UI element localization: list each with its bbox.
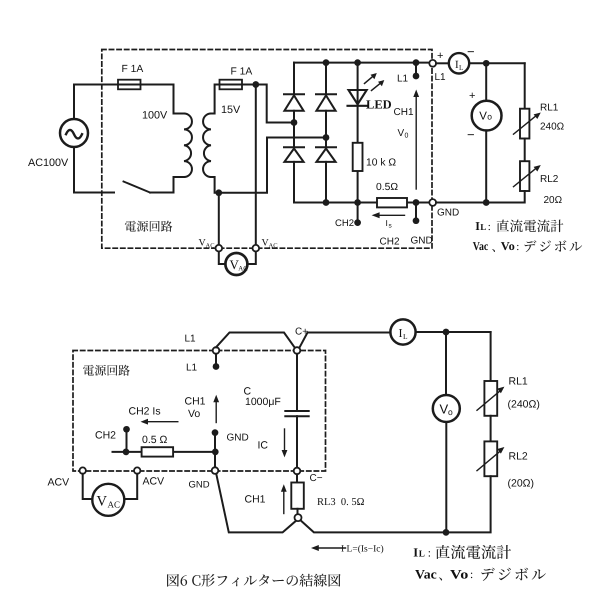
wire: Vo branch lower (bottom) (445, 423, 447, 532)
ammeter IL (bottom circuit) (390, 319, 415, 344)
svg-text:CH2: CH2 (335, 218, 354, 229)
wire: right edge lower to GND terminal (436, 191, 525, 203)
wire: capacitor branch lower (296, 416, 298, 468)
wire: diode column 1 middle segment (293, 111, 295, 148)
svg-text:CH2: CH2 (95, 430, 116, 442)
svg-text:CH2 Is: CH2 Is (129, 406, 161, 418)
resistor R2 0.5Ω (sense) (377, 198, 407, 207)
svg-text:I: I (399, 326, 403, 340)
resistor R1 10kΩ (353, 143, 363, 171)
svg-text:100V: 100V (142, 110, 168, 122)
wire: L1 probe stub (bottom) (215, 354, 217, 364)
transformer T1 primary winding (184, 114, 192, 178)
svg-text:I L=(Is−Ic): I L=(Is−Ic) (341, 545, 384, 555)
node: Vo branch top junction (bottom) (443, 329, 450, 336)
LED D5 (348, 90, 368, 106)
measurement arrow IC (capacitor current) (282, 429, 288, 457)
svg-text:Vo: Vo (501, 239, 515, 253)
svg-text:CH1: CH1 (185, 396, 206, 408)
terminal ACV left (80, 467, 86, 473)
wire: between RL1 and RL2 (524, 139, 526, 162)
label VAC (left terminal) (199, 238, 215, 250)
wire: secondary bottom junction to bridge AC input 2 (219, 138, 326, 193)
node: GND probe point (413, 217, 420, 224)
label 電源回路 (top) (125, 221, 172, 232)
svg-text:RL1: RL1 (540, 103, 559, 114)
svg-text:LED: LED (366, 98, 392, 112)
wire: C+ terminal to ammeter IL (bottom) (300, 333, 391, 348)
voltmeter Vo (bottom circuit) (433, 395, 460, 422)
rheostat RL1 (top circuit) (514, 109, 541, 139)
node: diode column 2 top rail junction (323, 59, 330, 66)
svg-text:L1: L1 (185, 334, 197, 345)
node: voltmeter Vo bottom junction (483, 199, 490, 206)
wire: VAC right terminal to meter (247, 252, 256, 265)
node: CH2 junction on sense wire (123, 449, 130, 456)
wire: VAC left terminal to meter (219, 252, 226, 265)
resistor RL3 0.5Ω (291, 483, 304, 509)
svg-text:I: I (413, 546, 418, 560)
switch S1 blade (124, 182, 151, 193)
svg-text:0.5Ω: 0.5Ω (376, 182, 398, 193)
wire: diode column 1 upper segment (293, 63, 295, 95)
current arrow Is (372, 212, 405, 218)
svg-text:GND: GND (227, 433, 249, 444)
wire: CH2 probe stub (357, 203, 359, 221)
terminal C+ (294, 347, 301, 354)
label Is (386, 218, 393, 230)
wire: L1 terminal to ammeter IL (436, 62, 448, 64)
svg-text:RL2: RL2 (540, 174, 559, 185)
voltmeter Vo (top circuit) (472, 101, 502, 131)
wire: primary bottom to switch S1 (150, 177, 184, 193)
terminal ACV right (134, 467, 140, 473)
ac source G1 (60, 119, 88, 147)
svg-text:AC: AC (206, 243, 215, 250)
svg-text:IC: IC (258, 440, 269, 452)
voltmeter VAC (225, 253, 248, 275)
svg-text:L: L (459, 64, 463, 72)
wire: bridge bottom rail (294, 202, 429, 204)
legend (top): Vac, Vo : digital voltmeter (473, 239, 520, 253)
wire: diode column 2 middle segment (325, 111, 327, 148)
measurement arrow CH1/Vo (bottom box) (213, 395, 219, 423)
svg-text:AC: AC (108, 500, 121, 510)
svg-text:o: o (448, 407, 453, 417)
wire: switch S1 contact to AC source bottom (74, 147, 114, 193)
node: GND probe junction on bottom rail (413, 199, 420, 206)
node: L1 probe point (bottom) (213, 363, 220, 370)
legend (bottom): Vac, Vo : digital voltmeter (415, 566, 473, 581)
wire: C- terminal to RL3 (296, 474, 298, 482)
wire: Vo branch lower (485, 130, 487, 202)
rheostat RL2 (bottom circuit) (477, 441, 504, 476)
wire: ACV left terminal to VAC meter (83, 474, 93, 499)
wire: ammeter IL to load corner (bottom) (416, 331, 491, 333)
svg-text:RL3 0. 5Ω: RL3 0. 5Ω (317, 497, 365, 508)
svg-text:0.5 Ω: 0.5 Ω (142, 434, 168, 446)
measurement arrow CH1 (across RL3) (281, 484, 287, 513)
wire: VAC meter right lead (255, 85, 257, 246)
svg-text:GND: GND (437, 208, 459, 219)
svg-text:L: L (403, 332, 408, 341)
svg-text::: : (428, 547, 431, 559)
wire: RL3 to bottom terminal (297, 509, 299, 514)
svg-text:Vo: Vo (188, 408, 200, 420)
wire: GND probe stub (415, 203, 417, 219)
LED light arrow 1 (365, 73, 377, 84)
svg-text:Vo: Vo (450, 566, 468, 581)
wire: rail to GND terminal diagonal (216, 475, 295, 533)
label V0 (top circuit) (398, 128, 409, 140)
svg-text:F 1A: F 1A (122, 64, 144, 75)
node: fuse F2 output junction (252, 81, 259, 88)
node: sense wire / GND junction (212, 449, 219, 456)
wire: AC source top to transformer primary (through fuse F1) (74, 85, 184, 120)
wire: right edge lower and bottom rail (bottom circuit) (302, 476, 491, 532)
dashed enclosure: power supply unit (top) (102, 50, 432, 249)
wire: bridge top rail (294, 62, 429, 64)
svg-text:C+: C+ (295, 327, 308, 338)
wire: sense wire through 0.5Ω (113, 451, 216, 453)
svg-text:ACV: ACV (48, 477, 70, 489)
wire: between RL1 and RL2 (bottom) (490, 416, 492, 442)
svg-text:V: V (398, 128, 405, 139)
fuse F1 (118, 80, 141, 90)
terminal GND (top circuit output) (429, 199, 436, 206)
svg-text:Vac: Vac (473, 239, 489, 253)
node: L1 probe junction on top rail (413, 59, 420, 66)
wire: ammeter IL to load branch corner (470, 62, 525, 64)
wire: right edge upper (to RL1) (524, 63, 526, 108)
wire: L1 terminal over to C+ terminal (216, 333, 294, 348)
wire: secondary top through fuse F2 to junction (211, 85, 256, 114)
node: bridge AC input 1 on diode column 1 (291, 119, 298, 126)
node: CH2 probe point (354, 219, 361, 226)
node: LED branch bottom junction (354, 199, 361, 206)
wire: Vo branch upper (bottom) (445, 332, 447, 395)
node: CH2 probe point (bottom) (123, 426, 130, 433)
LED light arrow 2 (372, 80, 385, 91)
legend (top): IL : DC ammeter (475, 219, 491, 233)
current arrow I L=(Is-Ic) (311, 545, 346, 551)
wire: VAC meter left lead (218, 193, 220, 245)
node: bridge AC input 2 on diode column 2 (323, 134, 330, 141)
label 電源回路 (bottom) (83, 365, 130, 376)
svg-text:AC100V: AC100V (28, 157, 69, 169)
terminal: VAC right (253, 245, 260, 252)
svg-text:CH1: CH1 (394, 107, 414, 118)
svg-text::: : (488, 221, 491, 233)
svg-text::: : (470, 569, 473, 581)
svg-text:ACV: ACV (143, 476, 165, 488)
diode D4 (316, 147, 336, 162)
svg-text:RL2: RL2 (509, 451, 528, 463)
wire: F2 junction to bridge AC input 1 (256, 85, 294, 123)
measurement arrow CH2/Is (141, 419, 178, 425)
wire: right edge upper (bottom circuit) (490, 332, 492, 381)
svg-text:F 1A: F 1A (231, 67, 253, 78)
wire: capacitor branch upper (296, 354, 298, 411)
measurement arrow V0 (CH1) (413, 90, 419, 190)
svg-text:L: L (419, 549, 425, 559)
transformer T1 secondary winding (203, 114, 211, 178)
svg-text:10 k Ω: 10 k Ω (366, 158, 396, 169)
svg-text:AC: AC (269, 243, 278, 250)
svg-text:o: o (487, 112, 492, 122)
svg-text:L1: L1 (397, 74, 409, 85)
svg-text:GND: GND (411, 236, 433, 247)
svg-text:V: V (97, 494, 108, 510)
node: LED branch top junction (354, 59, 361, 66)
svg-text:CH2: CH2 (380, 236, 400, 247)
svg-text::: : (516, 241, 519, 253)
svg-text:0: 0 (405, 133, 409, 140)
caption: 図6 C形フィルターの結線図 (167, 574, 341, 587)
fuse F2 (220, 80, 243, 90)
node: voltmeter Vo top junction (483, 60, 490, 67)
node: secondary bottom junction (215, 189, 222, 196)
svg-text:L1: L1 (186, 363, 198, 374)
diode D3 (284, 147, 304, 162)
node: GND probe point (bottom box) (212, 429, 219, 436)
ammeter IL (top circuit) (449, 53, 469, 73)
svg-text:AC: AC (238, 265, 248, 272)
wire: diode column 1 lower segment (293, 162, 295, 203)
terminal: VAC left (216, 245, 223, 252)
legend (bottom): IL : DC ammeter (413, 546, 431, 560)
diode D1 (284, 94, 304, 111)
svg-text:(20Ω): (20Ω) (508, 478, 535, 490)
wire: ACV right terminal to VAC meter (124, 474, 137, 499)
terminal L1 (top circuit output) (429, 60, 436, 67)
wire: Vo branch upper (485, 63, 487, 101)
node: diode column 2 bottom rail junction (323, 199, 330, 206)
wire: secondary bottom to junction (211, 177, 219, 193)
wire: CH2 probe stub (bottom) (126, 429, 128, 452)
svg-text:(240Ω): (240Ω) (508, 399, 540, 411)
voltmeter VAC (bottom) (92, 484, 124, 516)
svg-text:L: L (480, 222, 486, 232)
dashed enclosure: power supply unit (bottom) (73, 351, 326, 472)
wire: diode column 2 lower segment (325, 162, 327, 203)
rheostat RL2 (top circuit) (514, 161, 541, 191)
terminal RL3 bottom (295, 514, 302, 521)
svg-text:Vac: Vac (415, 566, 437, 581)
node: L1 probe point (413, 73, 420, 80)
wire: L1 probe stub (415, 63, 417, 74)
svg-text:+: + (469, 90, 475, 102)
terminal L1 (bottom circuit) (213, 347, 220, 354)
svg-text:GND: GND (189, 480, 210, 491)
wire: LED branch column (357, 63, 359, 203)
rheostat RL1 (bottom circuit) (477, 381, 504, 416)
diode D2 (316, 94, 336, 111)
svg-text:15V: 15V (221, 104, 241, 116)
wire: diode column 2 upper segment (325, 63, 327, 95)
wire: junction down to GND terminal (214, 452, 216, 467)
wire: GND probe stub down to sense wire (214, 433, 216, 452)
node: Vo branch bottom junction (bottom) (443, 529, 450, 536)
svg-text:RL1: RL1 (509, 376, 528, 388)
svg-text:L1: L1 (435, 72, 447, 83)
capacitor C1 1000uF (285, 411, 308, 416)
svg-text:240Ω: 240Ω (540, 122, 565, 133)
terminal GND (bottom circuit) (212, 467, 219, 474)
svg-text:+: + (437, 50, 443, 62)
svg-text:20Ω: 20Ω (544, 195, 563, 206)
label VAC (right terminal) (262, 238, 278, 250)
svg-text:1000μF: 1000μF (245, 396, 281, 408)
svg-text:V: V (479, 111, 487, 123)
svg-text:−: − (467, 127, 475, 142)
svg-text:C−: C− (310, 473, 323, 484)
svg-text:CH1: CH1 (245, 494, 266, 506)
terminal C- (294, 468, 301, 475)
resistor R3 0.5Ω (bottom) (142, 447, 174, 456)
